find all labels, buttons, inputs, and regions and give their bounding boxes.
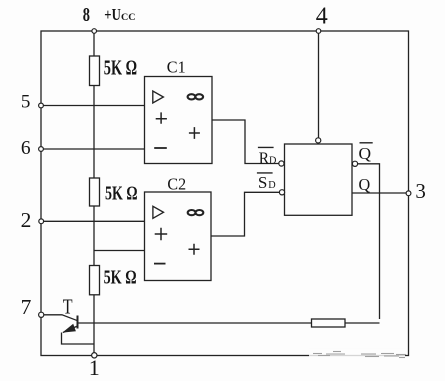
svg-text:4: 4 [316,4,328,30]
wire: Q output to pin3 [352,192,406,194]
comparator C1 minus input sign [154,147,167,149]
comparator C2 triangle symbol [153,206,164,218]
comparator C1 box [145,77,213,164]
svg-text:3: 3 [415,179,426,203]
svg-text:S: S [258,173,268,192]
latch RD input bubble [279,161,284,166]
svg-text:D: D [268,179,276,191]
svg-text:5K Ω: 5K Ω [104,268,137,289]
wire: pin7 to transistor collector [42,315,78,321]
svg-text:5: 5 [21,92,31,113]
comparator C2 plus center sign [189,244,200,255]
svg-text:Q: Q [359,144,372,163]
wire: base resistor to Qbar vertical [345,322,380,324]
svg-text:1: 1 [89,355,100,380]
comparator C2 infinity symbol [188,210,204,215]
svg-text:C1: C1 [167,57,186,76]
svg-text:5K Ω: 5K Ω [105,184,138,205]
comparator C2 minus input sign [154,263,166,265]
svg-text:7: 7 [21,295,32,319]
svg-text:+U: +U [104,5,121,24]
latch Qbar output bubble [352,161,357,166]
wire: rail R3 to pin1 [93,295,95,356]
IC package outline [41,31,409,356]
node pin4 terminal [316,29,321,34]
svg-text:8: 8 [83,4,90,26]
node pin5 terminal [39,103,44,108]
wire: rail Ucc node to R1 [93,31,95,56]
svg-text:T: T [63,294,73,318]
wire: pin2 to C2 + input [41,220,145,222]
latch SD input bubble [279,190,284,195]
svg-text:C2: C2 [167,174,186,193]
label RD with overline [258,147,277,167]
label Qbar with overline [359,143,373,163]
resistor R3 [90,266,100,295]
wire: rail R2 to R3 [93,206,95,266]
wire: node B to C2 - input [94,250,145,252]
wire: rail R1 to R2 [93,86,95,179]
resistor R1 [90,56,100,86]
resistor R2 [90,178,100,206]
wire: emitter to ground rail [62,333,95,345]
svg-text:D: D [269,154,277,166]
node pin6 terminal [39,147,44,152]
latch box [285,144,353,215]
wire: pin5 to C1 + input [41,105,145,107]
transistor Q1 emitter arrow [62,324,76,333]
latch top bubble [316,138,321,143]
comparator C2 box [145,192,212,281]
comparator C1 triangle symbol [153,91,164,103]
comparator C1 infinity symbol [188,94,204,99]
label SD with overline [257,173,276,192]
svg-text:6: 6 [21,138,31,159]
watermark smudge over bottom wire [309,349,406,363]
node pin3 terminal [406,191,411,196]
comparator C2 plus input sign [155,228,168,241]
transistor Q1 base bar [77,316,79,329]
wire: transistor base to resistor Rb [78,322,312,324]
node pin8 terminal [92,29,97,34]
wire: pin4 to latch top [318,31,320,138]
node pin2 terminal [39,219,44,224]
svg-text:CC: CC [121,13,136,23]
comparator C1 plus center sign [189,127,200,139]
svg-text:Q: Q [359,175,371,194]
transistor Q1 emitter [63,326,78,333]
resistor Rb (base resistor) [312,319,346,327]
wire: Qbar output to base resistor [358,164,380,319]
wire: C2 output to SD input [211,192,279,236]
node pin7 terminal [39,312,44,317]
svg-text:2: 2 [21,208,32,232]
wire: pin6 to C1 - input [41,148,145,150]
svg-text:5K Ω: 5K Ω [104,56,137,80]
wire: C1 output to RD input [212,120,279,164]
comparator C1 plus input sign [156,112,167,123]
node pin1 terminal [92,353,97,358]
